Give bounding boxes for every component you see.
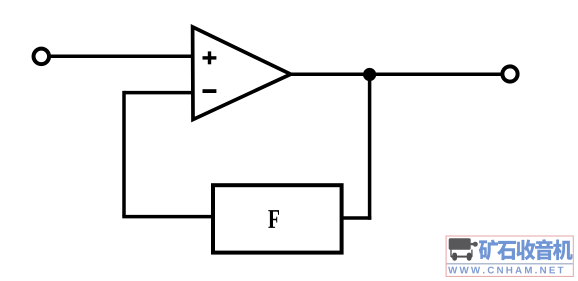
watermark radio cart icon knob	[473, 242, 478, 247]
watermark Chinese character yin	[535, 239, 553, 260]
watermark radio cart icon body	[449, 238, 471, 249]
wire: input terminal to op-amp non-inverting input	[51, 55, 193, 59]
watermark radio cart icon right post	[471, 250, 472, 257]
wire: left feedback horizontal segment to F block	[122, 215, 213, 219]
op-amp A1 triangle	[193, 27, 291, 120]
output terminal circle	[502, 66, 517, 81]
watermark separator line	[447, 263, 573, 264]
watermark Chinese character kuang	[479, 240, 498, 261]
watermark Chinese character shou	[516, 240, 535, 261]
feedback block F rectangle	[213, 185, 342, 252]
wire: left feedback vertical segment	[122, 91, 126, 217]
wire: op-amp output to output terminal	[291, 73, 501, 77]
watermark radio cart icon left post	[450, 250, 451, 257]
op-amp minus (-) input label	[203, 89, 217, 93]
watermark radio cart icon axle	[451, 256, 472, 258]
wire: F block output horizontal segment	[342, 216, 372, 220]
watermark radio cart icon right wheel	[467, 253, 472, 261]
wire: feedback to op-amp inverting input	[124, 91, 193, 95]
wire: right feedback vertical segment to output node	[368, 75, 372, 220]
watermark Chinese character shi	[497, 241, 516, 260]
watermark border box	[446, 236, 573, 276]
op-amp plus (+) input label	[203, 51, 217, 64]
watermark Chinese character ji	[553, 240, 573, 261]
input terminal circle	[34, 49, 50, 65]
watermark radio cart icon knob stem	[471, 243, 474, 245]
junction node dot	[363, 68, 376, 81]
watermark url text WWW.CNHAM.NET	[448, 267, 563, 274]
watermark radio cart icon left wheel	[452, 253, 457, 261]
feedback block label F	[268, 210, 279, 228]
